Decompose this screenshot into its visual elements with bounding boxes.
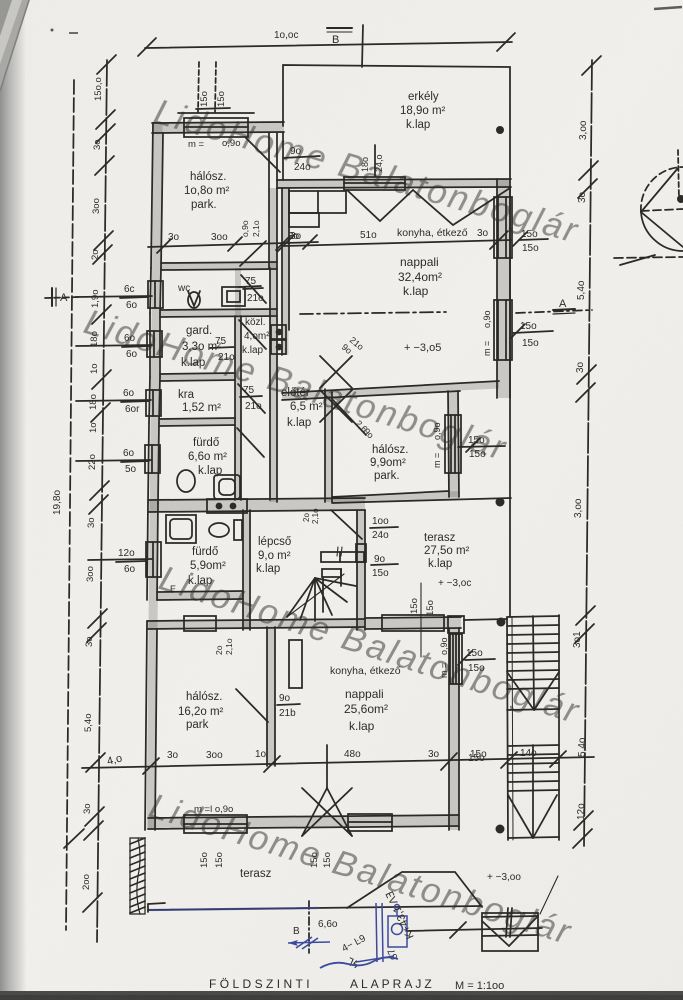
svg-text:18o: 18o xyxy=(88,394,99,410)
corridor kozl walls xyxy=(269,268,271,500)
svg-text:1o,8o m²: 1o,8o m² xyxy=(184,185,230,197)
top window leader 150/150 xyxy=(196,108,230,109)
svg-text:75: 75 xyxy=(215,336,227,347)
nappali1 right wall + windows xyxy=(496,179,498,398)
svg-text:2o: 2o xyxy=(214,645,224,655)
gard left wall + window xyxy=(149,313,151,377)
svg-text:2o: 2o xyxy=(90,249,101,260)
halosz2 walls xyxy=(324,389,326,502)
section break mark on stairs xyxy=(506,908,508,937)
tiny specks xyxy=(51,29,54,32)
svg-text:19,8o: 19,8o xyxy=(52,490,63,515)
diagonal leader to stairs xyxy=(540,876,558,914)
kitchen window opening (balcony door) xyxy=(344,177,405,190)
svg-text:15o: 15o xyxy=(309,852,320,868)
svg-text:előtér: előtér xyxy=(281,387,310,399)
blue fixture rect xyxy=(388,916,407,947)
svg-text:9o: 9o xyxy=(374,554,386,565)
svg-text:51o: 51o xyxy=(360,230,377,241)
svg-text:k.lap: k.lap xyxy=(198,465,222,477)
svg-text:12o: 12o xyxy=(576,803,587,820)
halosz2 wall shades xyxy=(325,390,332,502)
svg-text:18,9o m²: 18,9o m² xyxy=(400,105,446,117)
svg-text:6or: 6or xyxy=(125,404,140,415)
blue handwriting rotated xyxy=(340,889,416,970)
leader 150/150 stairs xyxy=(465,659,495,660)
line to SE stairs xyxy=(406,928,542,931)
wc wall shade xyxy=(161,265,277,266)
leader 150/150 halosz2 xyxy=(458,446,505,447)
svg-text:24,o: 24,o xyxy=(374,154,384,172)
kozl switch boxes xyxy=(271,325,286,339)
svg-text:15o: 15o xyxy=(216,91,227,107)
svg-text:75: 75 xyxy=(245,276,257,287)
furdo2 left window xyxy=(146,542,161,577)
door swing V2 xyxy=(413,188,510,225)
svg-text:hálósz.: hálósz. xyxy=(372,444,408,456)
svg-text:m =l o,9o: m =l o,9o xyxy=(194,804,233,815)
wall shading xyxy=(147,123,511,830)
svg-text:hálósz.: hálósz. xyxy=(186,691,222,703)
lepcso top-right door swing xyxy=(331,510,362,539)
wc fixtures xyxy=(188,292,200,308)
bottom wall shade xyxy=(148,820,459,823)
svg-text:terasz: terasz xyxy=(424,532,456,544)
flue rect nappali2 xyxy=(289,640,302,688)
left chain ticks xyxy=(97,55,116,74)
section marker B top xyxy=(362,25,363,67)
left scan band xyxy=(0,0,26,1000)
svg-text:3,oo: 3,oo xyxy=(573,498,584,518)
svg-text:2,1o: 2,1o xyxy=(311,508,320,524)
nappali1 symmetry dash line xyxy=(300,312,446,314)
svg-text:5o: 5o xyxy=(125,464,137,475)
svg-text:5,4o: 5,4o xyxy=(577,737,588,757)
svg-text:4,om²: 4,om² xyxy=(244,331,270,342)
svg-text:kra: kra xyxy=(178,389,195,401)
svg-text:15o: 15o xyxy=(468,435,485,446)
svg-text:12o: 12o xyxy=(118,548,135,559)
svg-text:21o: 21o xyxy=(245,401,262,412)
svg-text:fürdő: fürdő xyxy=(192,546,218,558)
leader 100/240 lepcso xyxy=(370,527,398,528)
svg-text:3o: 3o xyxy=(477,228,489,239)
svg-text:15o: 15o xyxy=(468,753,485,764)
svg-text:E: E xyxy=(170,584,176,594)
svg-text:3o: 3o xyxy=(92,139,103,150)
svg-text:15o: 15o xyxy=(469,449,486,460)
svg-text:15o: 15o xyxy=(199,91,210,107)
svg-text:15o: 15o xyxy=(522,338,539,349)
top dimension line xyxy=(145,42,512,48)
terasz2 bottom edge xyxy=(148,906,482,910)
left outer chain 1980 xyxy=(66,80,74,930)
nappali2 right wall xyxy=(448,628,450,830)
svg-text:lépcső: lépcső xyxy=(258,536,291,548)
furdo2 door left leader 120/60 xyxy=(88,559,152,560)
svg-text:terasz: terasz xyxy=(240,868,272,880)
furdo1 left wall + window xyxy=(148,423,149,503)
svg-text:m =: m = xyxy=(482,341,492,356)
gard door swing xyxy=(239,320,266,349)
wall gard / kra xyxy=(160,373,235,374)
svg-text:27,5o m²: 27,5o m² xyxy=(424,545,470,557)
blue terasz line overlay xyxy=(150,908,318,910)
wc left wall + window xyxy=(150,268,151,313)
svg-text:2o: 2o xyxy=(302,513,311,522)
halosz3 right wall shade xyxy=(268,627,275,766)
svg-text:B: B xyxy=(332,34,339,46)
svg-text:32,4om²: 32,4om² xyxy=(398,270,442,284)
svg-text:5,9om²: 5,9om² xyxy=(190,560,226,572)
mid thick wall y500 xyxy=(148,498,365,500)
wall nappali1 bottom xyxy=(282,381,499,393)
svg-text:ALAPRAJZ: ALAPRAJZ xyxy=(350,977,435,991)
right dimension chain xyxy=(584,60,592,846)
svg-text:15o: 15o xyxy=(425,600,436,616)
door swing halosz2 xyxy=(333,400,366,435)
svg-text:14o: 14o xyxy=(520,748,537,759)
wc door swing xyxy=(241,275,266,303)
svg-text:9o: 9o xyxy=(290,146,302,157)
watermark group xyxy=(80,92,586,952)
svg-text:6,5 m²: 6,5 m² xyxy=(290,401,323,413)
lepcso wall shades xyxy=(243,510,250,630)
halosz3 top wall shade xyxy=(147,623,365,625)
nappali1 left wall xyxy=(281,188,283,355)
svg-text:erkély: erkély xyxy=(408,91,439,103)
svg-text:9o: 9o xyxy=(279,693,291,704)
svg-text:3o: 3o xyxy=(84,636,95,647)
svg-text:nappali: nappali xyxy=(400,255,439,269)
door swing V1 xyxy=(347,190,413,221)
svg-text:+ −3,oo: + −3,oo xyxy=(487,872,521,883)
svg-text:15o,o: 15o,o xyxy=(93,77,104,101)
right terasz edge long vertical xyxy=(509,188,511,617)
roof X marks nappali2 xyxy=(326,745,328,788)
svg-text:k.lap: k.lap xyxy=(406,119,430,131)
svg-text:3o: 3o xyxy=(86,517,97,528)
svg-text:3o: 3o xyxy=(82,803,93,814)
SE small stairs xyxy=(482,913,538,951)
svg-text:konyha, étkező: konyha, étkező xyxy=(397,227,468,239)
furdo2 bottom wall xyxy=(157,591,243,592)
svg-text:24o: 24o xyxy=(294,162,311,173)
svg-text:3o: 3o xyxy=(428,749,440,760)
svg-text:15o: 15o xyxy=(322,852,333,868)
svg-text:gard.: gard. xyxy=(186,325,212,337)
svg-text:3oo: 3oo xyxy=(206,750,223,761)
A marker right xyxy=(516,310,592,313)
svg-text:3oo: 3oo xyxy=(85,566,96,582)
svg-text:o,9o: o,9o xyxy=(240,220,250,237)
svg-text:1o: 1o xyxy=(255,749,267,760)
svg-text:o,9o: o,9o xyxy=(222,138,241,149)
svg-text:3o: 3o xyxy=(168,232,180,243)
svg-text:9,9om²: 9,9om² xyxy=(370,457,406,469)
main right stairs shaft xyxy=(507,617,508,840)
halosz3 right wall xyxy=(266,627,268,766)
svg-text:2,1o: 2,1o xyxy=(251,220,261,237)
svg-text:M = 1:1oo: M = 1:1oo xyxy=(455,980,504,992)
nappali2 bottom wall xyxy=(148,815,459,818)
upper flight steps xyxy=(507,616,559,617)
svg-text:A: A xyxy=(60,292,68,304)
svg-text:6o: 6o xyxy=(126,300,138,311)
svg-text:3oo: 3oo xyxy=(211,232,228,243)
svg-text:park.: park. xyxy=(191,199,217,211)
svg-text:5,4o: 5,4o xyxy=(83,714,94,733)
svg-text:6o: 6o xyxy=(124,564,136,575)
leader 150/150 right xyxy=(519,239,548,240)
leader 150/150 right lower xyxy=(513,331,553,333)
svg-text:wc: wc xyxy=(177,283,190,294)
bottom scan band xyxy=(0,991,683,1000)
eloter door X swings xyxy=(320,356,352,388)
balcony dot xyxy=(496,126,504,134)
wall kra / furdo xyxy=(159,418,235,419)
section B bottom dashed xyxy=(308,901,310,953)
svg-text:15o: 15o xyxy=(409,598,420,614)
lepcso stairs steps xyxy=(321,552,364,562)
window axis line xyxy=(420,583,422,657)
kozl leader 75/210 xyxy=(239,286,261,287)
nappali1 interior dim xyxy=(284,240,511,246)
corridor wall shades xyxy=(235,268,241,500)
svg-text:6,6o m²: 6,6o m² xyxy=(188,451,227,463)
svg-text:3o: 3o xyxy=(167,750,179,761)
svg-text:o,9o: o,9o xyxy=(482,310,492,328)
svg-text:+ −3,oc: + −3,oc xyxy=(438,578,471,589)
stairs bottom dot xyxy=(496,825,505,834)
halosz1 top wall shade xyxy=(152,127,284,128)
svg-text:15o: 15o xyxy=(199,852,210,868)
A marker left xyxy=(45,297,80,298)
halosz1 right wall xyxy=(268,133,270,268)
svg-text:15o: 15o xyxy=(466,648,483,659)
furdo2 dots on wall xyxy=(216,503,223,510)
svg-text:1o,oc: 1o,oc xyxy=(274,30,298,41)
svg-text:21o: 21o xyxy=(218,352,235,363)
svg-text:6o: 6o xyxy=(123,388,135,399)
svg-text:6c: 6c xyxy=(124,284,135,295)
svg-text:B: B xyxy=(293,926,300,937)
terasz bay trapezoid xyxy=(347,872,482,908)
leader 90/240 xyxy=(283,156,320,158)
leader 90/210 halosz3 xyxy=(277,704,300,705)
halosz3 left outer wall xyxy=(145,621,147,830)
svg-text:FÖLDSZINTI: FÖLDSZINTI xyxy=(209,977,313,991)
svg-text:6o: 6o xyxy=(123,448,135,459)
svg-text:o,9o: o,9o xyxy=(432,422,442,440)
svg-text:15o: 15o xyxy=(522,243,539,254)
svg-text:6,6o: 6,6o xyxy=(318,919,338,930)
svg-text:fürdő: fürdő xyxy=(193,437,219,449)
svg-text:3o: 3o xyxy=(575,361,586,373)
leader 90/150 lepcso xyxy=(371,564,398,565)
svg-text:21b: 21b xyxy=(279,708,296,719)
svg-text:park.: park. xyxy=(374,470,400,482)
nappali2 right wall shade xyxy=(450,628,459,830)
svg-text:k.lap: k.lap xyxy=(287,417,311,429)
svg-text:15o: 15o xyxy=(521,229,538,240)
svg-text:48o: 48o xyxy=(344,749,361,760)
nappali right wall shade xyxy=(497,179,509,398)
halosz2 window right xyxy=(445,415,461,473)
terasz2 hatched strip xyxy=(130,838,145,914)
svg-text:3o: 3o xyxy=(290,231,302,242)
svg-text:22o: 22o xyxy=(87,454,98,470)
halosz1 top wall with window xyxy=(152,122,284,123)
svg-text:k.lap: k.lap xyxy=(242,345,264,356)
svg-text:15o: 15o xyxy=(468,663,485,674)
kitchen counter xyxy=(289,191,346,213)
left leaders 60/60 xyxy=(76,296,152,297)
svg-text:21o: 21o xyxy=(247,293,264,304)
nappali2 right wall window xyxy=(450,634,462,684)
furdo1 door swing xyxy=(237,428,264,457)
left dimension chain main xyxy=(97,60,107,942)
svg-text:park: park xyxy=(186,719,209,731)
svg-text:1o: 1o xyxy=(88,422,99,433)
svg-text:nappali: nappali xyxy=(345,687,384,701)
gard walls shade xyxy=(160,312,277,313)
terasz1 dot xyxy=(496,498,505,507)
svg-text:24o: 24o xyxy=(372,530,389,541)
blue arrow xyxy=(288,942,330,943)
wall wc / gard xyxy=(160,309,277,310)
svg-text:1,9o: 1,9o xyxy=(90,290,101,309)
kra left wall + window xyxy=(149,377,150,423)
blue scribble bottom xyxy=(320,957,398,968)
lepcso right wall xyxy=(356,510,358,630)
svg-text:A: A xyxy=(559,298,567,310)
top-left corner scan triangle xyxy=(0,0,30,92)
svg-text:konyha, étkező: konyha, étkező xyxy=(330,665,401,677)
svg-text:m =: m = xyxy=(439,663,449,678)
svg-text:3o: 3o xyxy=(577,191,588,203)
svg-text:3o1: 3o1 xyxy=(572,631,583,648)
lower flight steps xyxy=(508,745,559,746)
svg-text:k.lap: k.lap xyxy=(188,575,212,587)
svg-text:2,1o: 2,1o xyxy=(224,638,234,655)
svg-text:6o: 6o xyxy=(124,333,136,344)
svg-text:hálósz.: hálósz. xyxy=(190,171,226,183)
top-right scan mark xyxy=(654,7,682,9)
svg-text:16,2o m²: 16,2o m² xyxy=(178,706,224,718)
left outer wall shade xyxy=(151,123,158,830)
lepcso left wall xyxy=(242,510,244,630)
svg-text:1o: 1o xyxy=(89,363,100,374)
svg-text:k.lap: k.lap xyxy=(181,357,205,369)
kitchen top wall shade xyxy=(277,183,511,184)
balcony erkely outline xyxy=(283,65,510,179)
leader 75/210 gard xyxy=(210,347,234,348)
gard right wall xyxy=(234,316,236,500)
svg-text:5,4o: 5,4o xyxy=(576,280,587,300)
svg-text:k.lap: k.lap xyxy=(403,284,429,298)
svg-text:18o: 18o xyxy=(360,157,370,172)
svg-text:15o: 15o xyxy=(214,852,225,868)
blue vertical mark xyxy=(382,903,383,962)
svg-text:k.lap: k.lap xyxy=(256,563,280,575)
svg-text:15o: 15o xyxy=(520,321,537,332)
north circle symbol xyxy=(641,167,683,212)
wall halosz1 / wc xyxy=(161,262,277,263)
svg-text:6o: 6o xyxy=(126,349,138,360)
furdo2 bottom wall shade xyxy=(157,595,243,596)
interior dim line y244 xyxy=(148,242,318,247)
svg-text:k.lap: k.lap xyxy=(349,719,375,733)
svg-text:18o: 18o xyxy=(89,331,100,347)
furdo2 fixtures xyxy=(166,515,196,543)
svg-text:1oo: 1oo xyxy=(372,516,389,527)
svg-text:3oo: 3oo xyxy=(91,198,102,214)
svg-text:+ −3,o5: + −3,o5 xyxy=(404,342,441,354)
svg-text:75: 75 xyxy=(243,385,255,396)
svg-text:2oo: 2oo xyxy=(81,874,92,890)
furdo2 left outer wall xyxy=(147,503,148,600)
svg-text:15o: 15o xyxy=(372,568,389,579)
svg-text:1,52 m²: 1,52 m² xyxy=(182,402,221,414)
nappali left wall shade xyxy=(282,188,289,355)
svg-text:közl.: közl. xyxy=(245,317,266,328)
kitchen top wall xyxy=(277,179,511,180)
svg-text:k.lap: k.lap xyxy=(428,558,452,570)
halosz1 left outer wall xyxy=(151,123,153,268)
leader 75/210 wc xyxy=(243,288,263,289)
door swing halosz3 xyxy=(236,689,268,722)
180/240 marker line xyxy=(374,145,376,176)
terasz1 south wall extension xyxy=(365,617,461,618)
svg-text:9,o m²: 9,o m² xyxy=(258,550,291,562)
dashed line under circle xyxy=(614,257,683,258)
lower dim chain y765 xyxy=(82,757,594,768)
stairs top dot xyxy=(497,618,506,627)
svg-text:m =: m = xyxy=(188,139,205,150)
halosz3 top wall xyxy=(147,619,365,621)
BLUE INK xyxy=(150,889,417,970)
svg-text:3,oo: 3,oo xyxy=(578,120,589,140)
leader 75/210 kra xyxy=(240,396,262,397)
svg-text:m =: m = xyxy=(432,453,442,468)
mid wall shade xyxy=(148,504,365,506)
svg-text:o,9o: o,9o xyxy=(439,637,449,655)
door swing halosz1 xyxy=(246,138,280,172)
svg-text:25,6om²: 25,6om² xyxy=(344,702,388,716)
kra door swing xyxy=(238,384,265,413)
furdo1 fixtures xyxy=(177,470,195,492)
